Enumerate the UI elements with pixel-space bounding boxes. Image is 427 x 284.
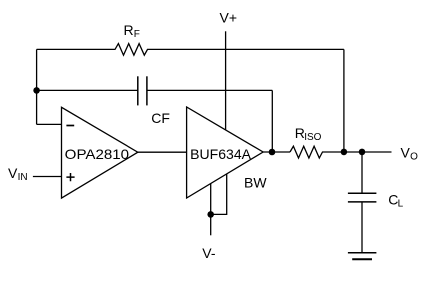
label CL bbox=[388, 192, 403, 210]
buffer U2 BUF634A bbox=[187, 107, 264, 198]
label RISO bbox=[295, 125, 322, 143]
label V- bbox=[202, 245, 216, 261]
svg-text:IN: IN bbox=[18, 172, 28, 183]
capacitor CF bbox=[37, 76, 273, 105]
svg-text:V+: V+ bbox=[220, 9, 238, 25]
resistor RISO bbox=[290, 146, 392, 158]
op-amp U1 OPA2810 bbox=[62, 107, 138, 198]
svg-text:BUF634A: BUF634A bbox=[190, 146, 251, 162]
node RF feedback junction bbox=[341, 149, 348, 156]
wire feedback top-left vertical bbox=[36, 49, 38, 124]
ground bbox=[348, 253, 377, 260]
svg-text:CF: CF bbox=[151, 110, 170, 126]
svg-text:O: O bbox=[410, 152, 418, 163]
label V+ bbox=[220, 9, 238, 25]
label BW bbox=[244, 175, 267, 191]
label CF bbox=[151, 110, 170, 126]
svg-text:V-: V- bbox=[202, 245, 216, 261]
node U2 output junction bbox=[269, 149, 276, 156]
label VIN bbox=[8, 165, 28, 183]
svg-text:OPA2810: OPA2810 bbox=[65, 146, 130, 162]
wire CF to output node vertical bbox=[271, 90, 273, 151]
wire output bus bbox=[263, 151, 290, 153]
svg-text:L: L bbox=[398, 199, 404, 210]
svg-text:V: V bbox=[8, 165, 18, 181]
node feedback junction bbox=[33, 87, 40, 94]
svg-text:F: F bbox=[134, 29, 140, 40]
svg-text:ISO: ISO bbox=[304, 132, 321, 143]
capacitor CL bbox=[348, 152, 377, 253]
wire VIN input bbox=[33, 176, 62, 178]
wire RF feedback right vertical bbox=[343, 49, 345, 151]
wire BW pin bbox=[211, 174, 227, 215]
wire V+ supply bbox=[225, 31, 227, 129]
node CL junction bbox=[359, 149, 366, 156]
wire V- pin bbox=[210, 184, 212, 236]
resistor RF bbox=[37, 44, 344, 56]
wire inverting input bbox=[37, 123, 62, 125]
label RF bbox=[124, 22, 140, 40]
node V- junction bbox=[207, 211, 214, 218]
svg-text:R: R bbox=[124, 22, 134, 38]
wire U1 output to U2 input bbox=[138, 151, 187, 153]
svg-text:BW: BW bbox=[244, 175, 267, 191]
svg-text:V: V bbox=[401, 145, 411, 161]
label VO bbox=[401, 145, 419, 163]
